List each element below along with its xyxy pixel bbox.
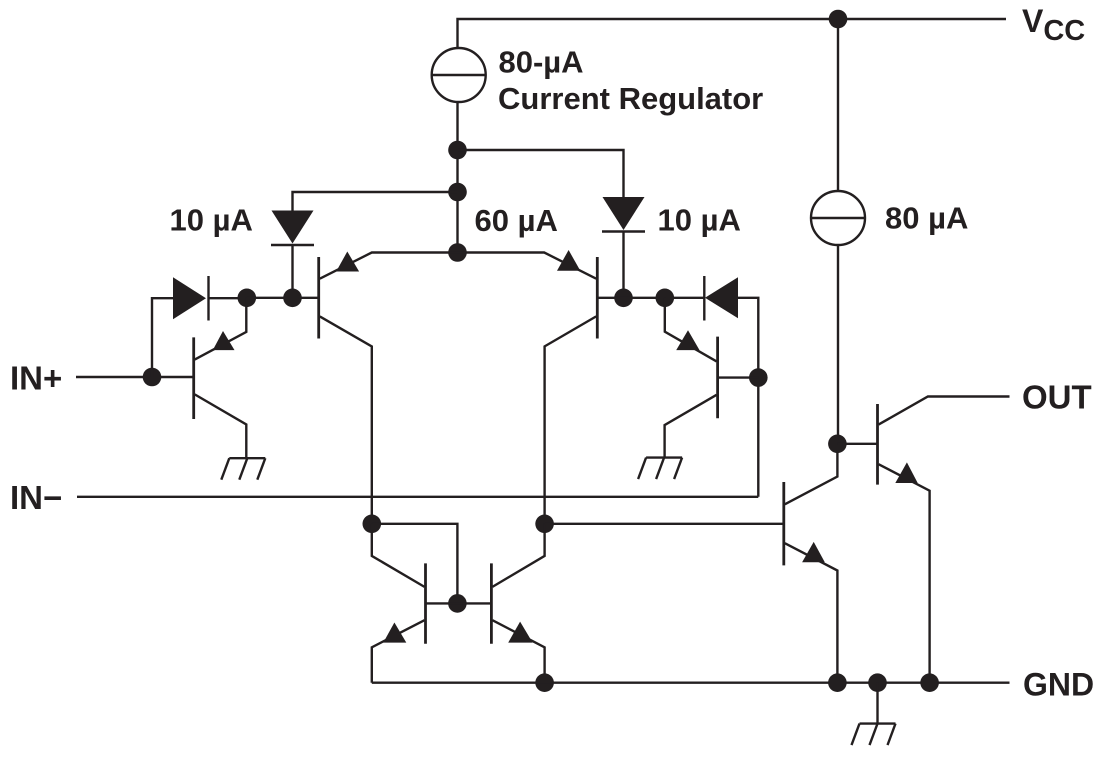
svg-text:VCC: VCC [1022,3,1085,47]
node GND Q8 emitter [920,673,939,692]
wire IN+ up to D3 [152,298,173,377]
transistor Q5 emitter arrow [383,623,406,643]
wire 60uA node to Q2 emitter [320,253,458,279]
wire IN+ lead [76,376,194,378]
transistor Q5 base bar [424,563,427,643]
wire Q6 collector [492,524,544,587]
wire mirror left to base riser [372,524,458,604]
transistor Q7 emitter arrow [802,542,825,562]
wire Q2 collector [320,316,372,523]
wire Q5 emitter [372,620,425,683]
ground G1 [229,457,265,459]
wire Q7 collector [785,444,838,505]
node A [238,289,257,308]
wire top tap to right diode [458,150,624,198]
node GND center [868,673,887,692]
svg-text:Current Regulator: Current Regulator [498,81,763,116]
wire Q8 base [837,443,877,445]
wire D1 to node B [291,246,293,298]
node GND Q7 emitter [828,673,847,692]
diode D2 [603,197,645,230]
node B [283,289,302,308]
node mirror right [535,515,554,534]
svg-text:OUT: OUT [1022,379,1092,416]
transistor Q8 emitter arrow [895,462,917,483]
transistor Q4 base bar [716,337,719,419]
svg-text:80 µA: 80 µA [885,201,968,236]
wire Q4 emitter [665,298,717,362]
wire Q4 base [718,376,759,378]
wire Q4 collector to ground [665,395,717,458]
transistor Q8 base bar [876,404,879,485]
transistor Q2 base bar [317,257,320,339]
wire mirror base link [426,602,492,604]
wire node A to Q2 base [247,297,319,299]
wire Q1 collector to ground [195,394,247,458]
transistor Q7 base bar [782,482,785,565]
transistor Q1 base bar [192,337,195,419]
svg-text:80-µA: 80-µA [499,45,584,80]
node mirror base [448,594,467,613]
wire Q5 collector [372,524,425,587]
node top tap [448,141,467,160]
svg-text:IN+: IN+ [10,360,62,397]
node C [614,289,633,308]
wire regulator to 60uA node [456,102,458,253]
transistor Q6 base bar [490,563,493,643]
wire Vcc to I1 [837,19,839,191]
ground G3 [860,722,896,724]
svg-text:GND: GND [1023,667,1094,703]
transistor Q3 emitter arrow [557,250,580,271]
node F [749,368,768,387]
diode D3 [173,277,206,319]
node E [656,289,675,308]
wire VCC rail [458,19,1007,49]
node mid tap [448,183,467,202]
wire D3 to node A [210,297,247,299]
wire 60uA node to Q3 emitter [458,253,597,279]
node mirror left [363,515,382,534]
node mirror emitter junction [535,673,554,692]
node Q8 base junction [828,435,847,454]
wire Q1 emitter [195,298,247,360]
wire Q3 base to D4 [597,297,704,299]
current regulator CR1 [432,48,486,102]
diode D1 [272,211,314,244]
wire Q7 emitter [785,543,838,683]
wire D4 to IN- riser [738,298,758,497]
wire mirror to Q7 base [545,523,784,525]
wire GND stub [876,683,878,724]
transistor Q2 emitter arrow [336,252,359,272]
ground G2 [646,456,682,458]
wire IN- lead [77,496,758,498]
svg-text:10 µA: 10 µA [658,203,741,238]
wire Q3 collector [545,316,597,523]
transistor Q1 emitter arrow [213,331,235,350]
wire Q6 emitter [492,620,544,683]
node VCC junction [829,10,848,29]
svg-text:IN−: IN− [10,479,62,516]
wire I1 to Q7 collector node [837,245,839,444]
wire D2 to node C [622,232,624,298]
svg-text:60 µA: 60 µA [475,203,558,238]
wire Q8 collector to OUT [879,397,1010,425]
diode D4 [705,277,738,318]
node 60uA [448,243,467,262]
node IN+ junction [143,368,162,387]
transistor Q6 emitter arrow [508,622,532,643]
current source I1 [811,191,865,245]
transistor Q4 emitter arrow [676,330,699,350]
transistor Q3 base bar [596,257,599,339]
wire GND rail [372,682,1010,684]
svg-text:10 µA: 10 µA [170,203,253,238]
wire Q8 emitter [879,464,930,683]
wire mid tap to left diode [293,192,458,211]
